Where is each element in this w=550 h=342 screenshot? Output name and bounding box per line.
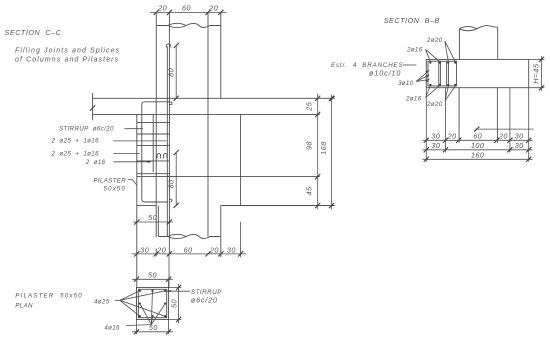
svg-text:25: 25 bbox=[305, 101, 314, 111]
4o16 leader fan bbox=[126, 291, 165, 326]
svg-text:20: 20 bbox=[209, 245, 219, 254]
stirrup leader bbox=[167, 290, 190, 292]
svg-text:60: 60 bbox=[182, 4, 191, 13]
svg-text:Filling Joints and Splices: Filling Joints and Splices bbox=[15, 47, 120, 54]
svg-text:50: 50 bbox=[149, 323, 158, 332]
leader pilaster label bbox=[128, 180, 137, 186]
column left face lower bbox=[155, 98, 157, 256]
svg-text:2ø16: 2ø16 bbox=[405, 96, 422, 103]
ext lines bbox=[137, 279, 182, 334]
svg-text:2 ø16: 2 ø16 bbox=[85, 159, 106, 166]
leader 2o25a bbox=[113, 140, 166, 142]
svg-text:4ø25: 4ø25 bbox=[94, 298, 110, 305]
svg-text:SECTION C–C: SECTION C–C bbox=[5, 28, 62, 37]
column rebar left (continuous bar) bbox=[168, 12, 170, 254]
stirrup 3 bbox=[137, 144, 169, 146]
svg-text:45: 45 bbox=[305, 186, 314, 195]
hooked lap bar (rounded) bbox=[142, 102, 171, 202]
stirrup legs bbox=[439, 61, 449, 86]
svg-text:160: 160 bbox=[471, 151, 485, 160]
pilaster 50 dim line bbox=[133, 221, 173, 223]
svg-text:30: 30 bbox=[140, 245, 149, 254]
svg-text:H=45: H=45 bbox=[532, 63, 541, 84]
column rebar right (continuous bar) bbox=[207, 12, 209, 236]
ext to plan right bbox=[168, 255, 170, 289]
stirrup leg line bbox=[157, 206, 159, 237]
extension lines below beam bbox=[426, 88, 528, 162]
top bar end hook bbox=[169, 102, 172, 105]
stirrup 4 bbox=[137, 160, 169, 162]
beam top line bbox=[93, 97, 335, 99]
beam bottom left segment bbox=[137, 205, 157, 207]
svg-text:2ø20: 2ø20 bbox=[426, 37, 443, 44]
plan top 50 dim bbox=[132, 278, 173, 280]
plan right 50 dim bbox=[178, 284, 180, 324]
svg-text:PILASTER: PILASTER bbox=[93, 178, 126, 185]
beam bottom right segment bbox=[221, 205, 335, 207]
beam outline bbox=[426, 59, 528, 87]
svg-text:50: 50 bbox=[148, 213, 157, 222]
bottom bar end hook bbox=[169, 199, 172, 202]
inner bar bbox=[152, 115, 154, 172]
column break bbox=[459, 26, 497, 31]
dim row 2 bbox=[423, 149, 533, 151]
upper 80 dim line bbox=[175, 46, 177, 99]
svg-text:100: 100 bbox=[471, 141, 485, 150]
top dim line 20/60/20 bbox=[150, 11, 227, 13]
svg-text:20: 20 bbox=[498, 132, 508, 141]
bar end symbol top bbox=[166, 44, 170, 47]
right pilaster face bbox=[240, 114, 242, 205]
plan bottom 50 dim bbox=[132, 331, 173, 333]
svg-text:ø6c/20: ø6c/20 bbox=[191, 295, 218, 304]
right dim line 168 bbox=[331, 95, 333, 210]
svg-text:20: 20 bbox=[208, 4, 218, 13]
square bbox=[137, 288, 169, 320]
pilaster left face bbox=[136, 114, 138, 288]
stirrup square bbox=[138, 289, 166, 317]
svg-text:30: 30 bbox=[431, 141, 440, 150]
upper column left face bbox=[155, 12, 157, 98]
2o16 leader arrow bbox=[147, 161, 152, 163]
svg-text:20: 20 bbox=[157, 4, 167, 13]
svg-text:2 ø25 + 1ø16: 2 ø25 + 1ø16 bbox=[51, 151, 100, 158]
svg-text:60: 60 bbox=[184, 245, 193, 254]
svg-text:98: 98 bbox=[305, 141, 314, 150]
svg-text:30: 30 bbox=[431, 132, 440, 141]
right pilaster ext bbox=[240, 222, 242, 258]
svg-text:30: 30 bbox=[515, 132, 524, 141]
svg-text:ø10c/10: ø10c/10 bbox=[369, 69, 401, 78]
break line upper column bbox=[156, 23, 221, 27]
svg-text:SECTION B–B: SECTION B–B bbox=[384, 16, 440, 25]
svg-text:PILASTER 50x50: PILASTER 50x50 bbox=[15, 293, 82, 300]
dim row 1 bbox=[423, 139, 533, 141]
mystery line bbox=[476, 128, 534, 130]
leaders bottom bbox=[426, 86, 440, 98]
svg-text:80: 80 bbox=[166, 180, 175, 189]
svg-text:50: 50 bbox=[148, 270, 157, 279]
bar end hooks mid joint bbox=[157, 154, 167, 159]
column right face lower bbox=[220, 206, 222, 258]
svg-text:60: 60 bbox=[473, 132, 482, 141]
leaders top bbox=[445, 41, 456, 62]
svg-text:168: 168 bbox=[319, 141, 328, 155]
svg-text:4ø16: 4ø16 bbox=[104, 324, 120, 331]
column above beam bbox=[459, 27, 497, 59]
leader 2o16 bbox=[113, 161, 150, 163]
column below beam bbox=[459, 88, 497, 143]
svg-text:80: 80 bbox=[166, 68, 175, 77]
beam third line bbox=[137, 176, 320, 178]
dim row 3 bbox=[423, 158, 533, 160]
svg-text:STIRRUP ø6c/20: STIRRUP ø6c/20 bbox=[59, 126, 114, 133]
3o10 arrows bbox=[425, 70, 430, 82]
pilaster stirrup bbox=[428, 61, 457, 86]
svg-text:30: 30 bbox=[515, 141, 524, 150]
stirrup 2 bbox=[137, 133, 169, 135]
svg-text:2ø16: 2ø16 bbox=[406, 47, 423, 54]
svg-text:2ø20: 2ø20 bbox=[426, 101, 443, 108]
svg-text:of Columns and Pilasters: of Columns and Pilasters bbox=[15, 56, 119, 63]
stirrup 5 bbox=[137, 173, 169, 175]
upper column right face bbox=[220, 12, 222, 98]
svg-text:50x50: 50x50 bbox=[104, 185, 126, 192]
right dim line 25/98/45 bbox=[317, 94, 319, 210]
stirrup leader arrow bbox=[166, 290, 171, 292]
4o25 leader fan bbox=[115, 291, 165, 316]
svg-text:20: 20 bbox=[447, 132, 457, 141]
leader 2o25b bbox=[113, 152, 140, 154]
svg-text:20: 20 bbox=[156, 245, 166, 254]
svg-text:30: 30 bbox=[227, 245, 236, 254]
pilaster bar with top end bbox=[166, 47, 168, 237]
stirrup 1 bbox=[137, 122, 169, 124]
beam left cut edge bbox=[92, 93, 94, 121]
svg-text:PLAN: PLAN bbox=[15, 303, 33, 310]
svg-text:2 ø25 + 1ø16: 2 ø25 + 1ø16 bbox=[51, 138, 100, 145]
svg-text:50: 50 bbox=[170, 299, 179, 308]
lower 80 dim line bbox=[175, 153, 177, 206]
H=45 dim bbox=[529, 56, 545, 91]
break line lower column bbox=[159, 234, 221, 238]
bottom dim row line bbox=[132, 253, 247, 255]
svg-text:3ø10: 3ø10 bbox=[398, 80, 414, 87]
leader stirrup label bbox=[125, 128, 144, 130]
beam second line bbox=[93, 113, 320, 115]
